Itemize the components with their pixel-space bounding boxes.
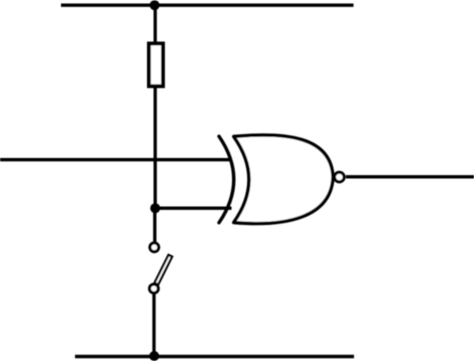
- resistor (pull-up): [149, 44, 163, 87]
- wire from resistor to lower junction: [154, 88, 157, 208]
- node junction on bottom rail: [149, 351, 159, 361]
- wire input A (middle horizontal): [0, 158, 232, 161]
- wire input B stub to gate: [155, 207, 231, 210]
- node junction on top rail: [150, 0, 160, 10]
- wire from top rail to resistor: [154, 5, 157, 43]
- wire from switch to bottom rail: [152, 294, 155, 357]
- XNOR gate U1 output inversion bubble: [335, 172, 345, 182]
- XNOR gate U1 rear input arc: [219, 136, 234, 222]
- switch top terminal (open circle): [150, 243, 159, 252]
- wire top rail: [61, 3, 354, 6]
- wire bottom rail: [75, 355, 354, 358]
- XNOR gate U1 body: [234, 135, 333, 224]
- wire from junction B down to switch: [153, 208, 156, 242]
- wire output from gate: [346, 175, 474, 178]
- node junction B (dot at lower input): [150, 203, 160, 213]
- switch lever (open blade): [155, 255, 173, 285]
- switch bottom terminal (open circle): [150, 284, 159, 293]
